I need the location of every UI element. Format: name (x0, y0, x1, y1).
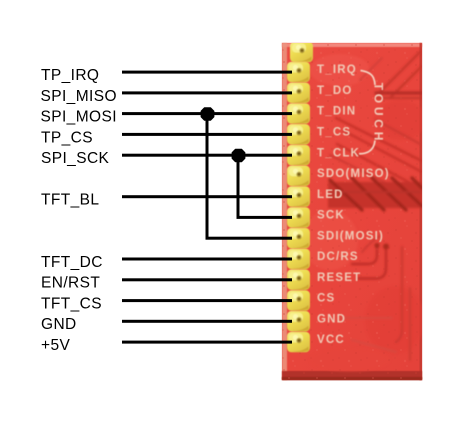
svg-text:RESET: RESET (317, 272, 361, 284)
wire SPI_MISO (122, 91, 292, 94)
board bottom dark strip (282, 371, 422, 380)
wire TFT_CS (122, 299, 292, 302)
connector pin 1 (T_IRQ) (287, 62, 310, 83)
svg-text:LED: LED (317, 189, 344, 201)
svg-text:T_DIN: T_DIN (317, 106, 356, 118)
connector pin 11 (RESET) (287, 269, 310, 290)
pin header partial pin at board top (290, 42, 313, 63)
faint lower-left board traces (340, 317, 392, 319)
node junction J1 (SPI_MOSI) (201, 108, 214, 120)
svg-text:+5V: +5V (41, 337, 70, 354)
wire SPI_MOSI to SDI(MOSI) vertical (206, 114, 209, 240)
svg-text:GND: GND (41, 316, 77, 333)
svg-text:VCC: VCC (317, 334, 345, 346)
svg-text:DC/RS: DC/RS (317, 251, 359, 263)
svg-text:TFT_CS: TFT_CS (41, 296, 102, 313)
svg-text:SPI_SCK: SPI_SCK (41, 150, 110, 167)
svg-text:T_CS: T_CS (317, 127, 351, 139)
board photo mottling (302, 54, 426, 372)
node junction J2 (SPI_SCK) (232, 149, 245, 161)
connector pin 9 (SDI MOSI) (287, 228, 310, 249)
silkscreen TOUCH group bracket (359, 71, 386, 154)
svg-text:SPI_MISO: SPI_MISO (41, 88, 117, 105)
wire SPI_MOSI (122, 112, 292, 115)
connector pin 10 (DC/RS) (287, 249, 310, 270)
wire TP_CS (122, 133, 292, 136)
dark hatched band across LED row (328, 182, 422, 208)
svg-text:SDO(MISO): SDO(MISO) (317, 168, 390, 180)
wire EN/RST (122, 278, 292, 281)
svg-text:TP_IRQ: TP_IRQ (41, 67, 99, 84)
wire +5V (122, 341, 292, 344)
vertical traces lower right (396, 247, 402, 342)
board top edge highlight (282, 43, 422, 47)
wire SPI_SCK to SCK vertical (237, 155, 240, 218)
diagonal traces top-right corner (380, 52, 420, 92)
board left edge highlight (282, 43, 287, 380)
svg-text:GND: GND (317, 313, 346, 325)
svg-text:TFT_DC: TFT_DC (41, 254, 103, 271)
connector pin 4 (T_CS) (287, 124, 310, 145)
wire SPI_SCK (122, 154, 292, 157)
svg-text:SCK: SCK (317, 210, 345, 222)
svg-text:TFT_BL: TFT_BL (41, 192, 99, 209)
curved traces near DC/RS and RESET (352, 249, 377, 264)
svg-text:SDI(MOSI): SDI(MOSI) (317, 230, 384, 242)
horizontal trace band upper right (376, 91, 422, 94)
connector pin 2 (T_DO) (287, 83, 310, 104)
svg-text:T_DO: T_DO (317, 85, 352, 97)
wire SCK horizontal (237, 216, 293, 219)
connector pin 14 (VCC) (287, 332, 310, 353)
PCB copper traces (decorative) (328, 52, 422, 360)
wire TP_IRQ (122, 71, 292, 74)
connector pin 13 (GND) (287, 311, 310, 332)
svg-text:TP_CS: TP_CS (41, 129, 93, 146)
silkscreen pin labels (317, 64, 390, 346)
wire TFT_BL (122, 195, 292, 198)
connector pin 6 (SDO MISO) (287, 166, 310, 187)
PCB module board (red TFT breakout) (282, 43, 426, 380)
svg-text:T_CLK: T_CLK (317, 147, 360, 159)
svg-text:SPI_MOSI: SPI_MOSI (41, 109, 117, 126)
wire SDI(MOSI) horizontal (206, 237, 293, 240)
board right edge dark line (420, 43, 423, 380)
connector pin 3 (T_DIN) (287, 103, 310, 124)
net labels (left column) (41, 67, 117, 354)
svg-text:TOUCH: TOUCH (372, 83, 386, 144)
wire GND (122, 320, 292, 323)
wire TFT_DC (122, 258, 292, 261)
connector pin 5 (T_CLK) (287, 145, 310, 166)
svg-text:CS: CS (317, 293, 335, 305)
svg-text:EN/RST: EN/RST (41, 275, 100, 292)
connector pin 7 (LED) (287, 186, 310, 207)
svg-text:T_IRQ: T_IRQ (317, 64, 357, 76)
connector pin 8 (SCK) (287, 207, 310, 228)
diagonal bundle mid board (336, 118, 422, 161)
connector pin 12 (CS) (287, 290, 310, 311)
